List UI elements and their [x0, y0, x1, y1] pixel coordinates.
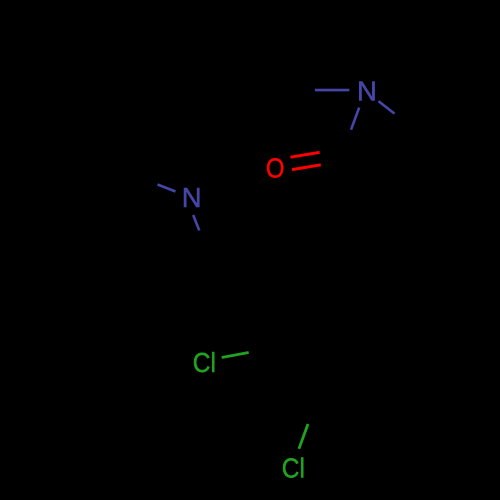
svg-text:N: N	[357, 76, 377, 107]
double bond C=O line 2 (O half)	[292, 165, 321, 170]
bond CH3-N1 (amide N-methyl, N half)	[315, 89, 349, 92]
svg-text:O: O	[266, 154, 285, 184]
svg-text:N: N	[182, 182, 202, 213]
atom N2 (amine nitrogen)	[182, 182, 202, 213]
atom O (carbonyl oxygen)	[266, 154, 285, 184]
atom Cl2 (chlorine)	[282, 452, 305, 484]
bond N2-C (ring N, lower-right N half)	[193, 215, 199, 231]
atom N1 (amide nitrogen)	[357, 76, 377, 107]
svg-text:Cl: Cl	[193, 347, 216, 379]
double bond C=O line 1 (O half)	[290, 152, 319, 157]
bond N1-C(=O) (N half)	[351, 108, 359, 130]
bond N1-CH3 (second N-methyl, N half)	[378, 101, 394, 114]
atom Cl1 (chlorine)	[193, 347, 216, 379]
svg-text:Cl: Cl	[282, 452, 305, 484]
bond Cl1-C(aryl) (Cl half)	[222, 353, 249, 358]
bond C-N2 (ring N, upper-left N half)	[158, 185, 176, 192]
bond Cl2-C(aryl) (Cl half)	[299, 424, 308, 449]
